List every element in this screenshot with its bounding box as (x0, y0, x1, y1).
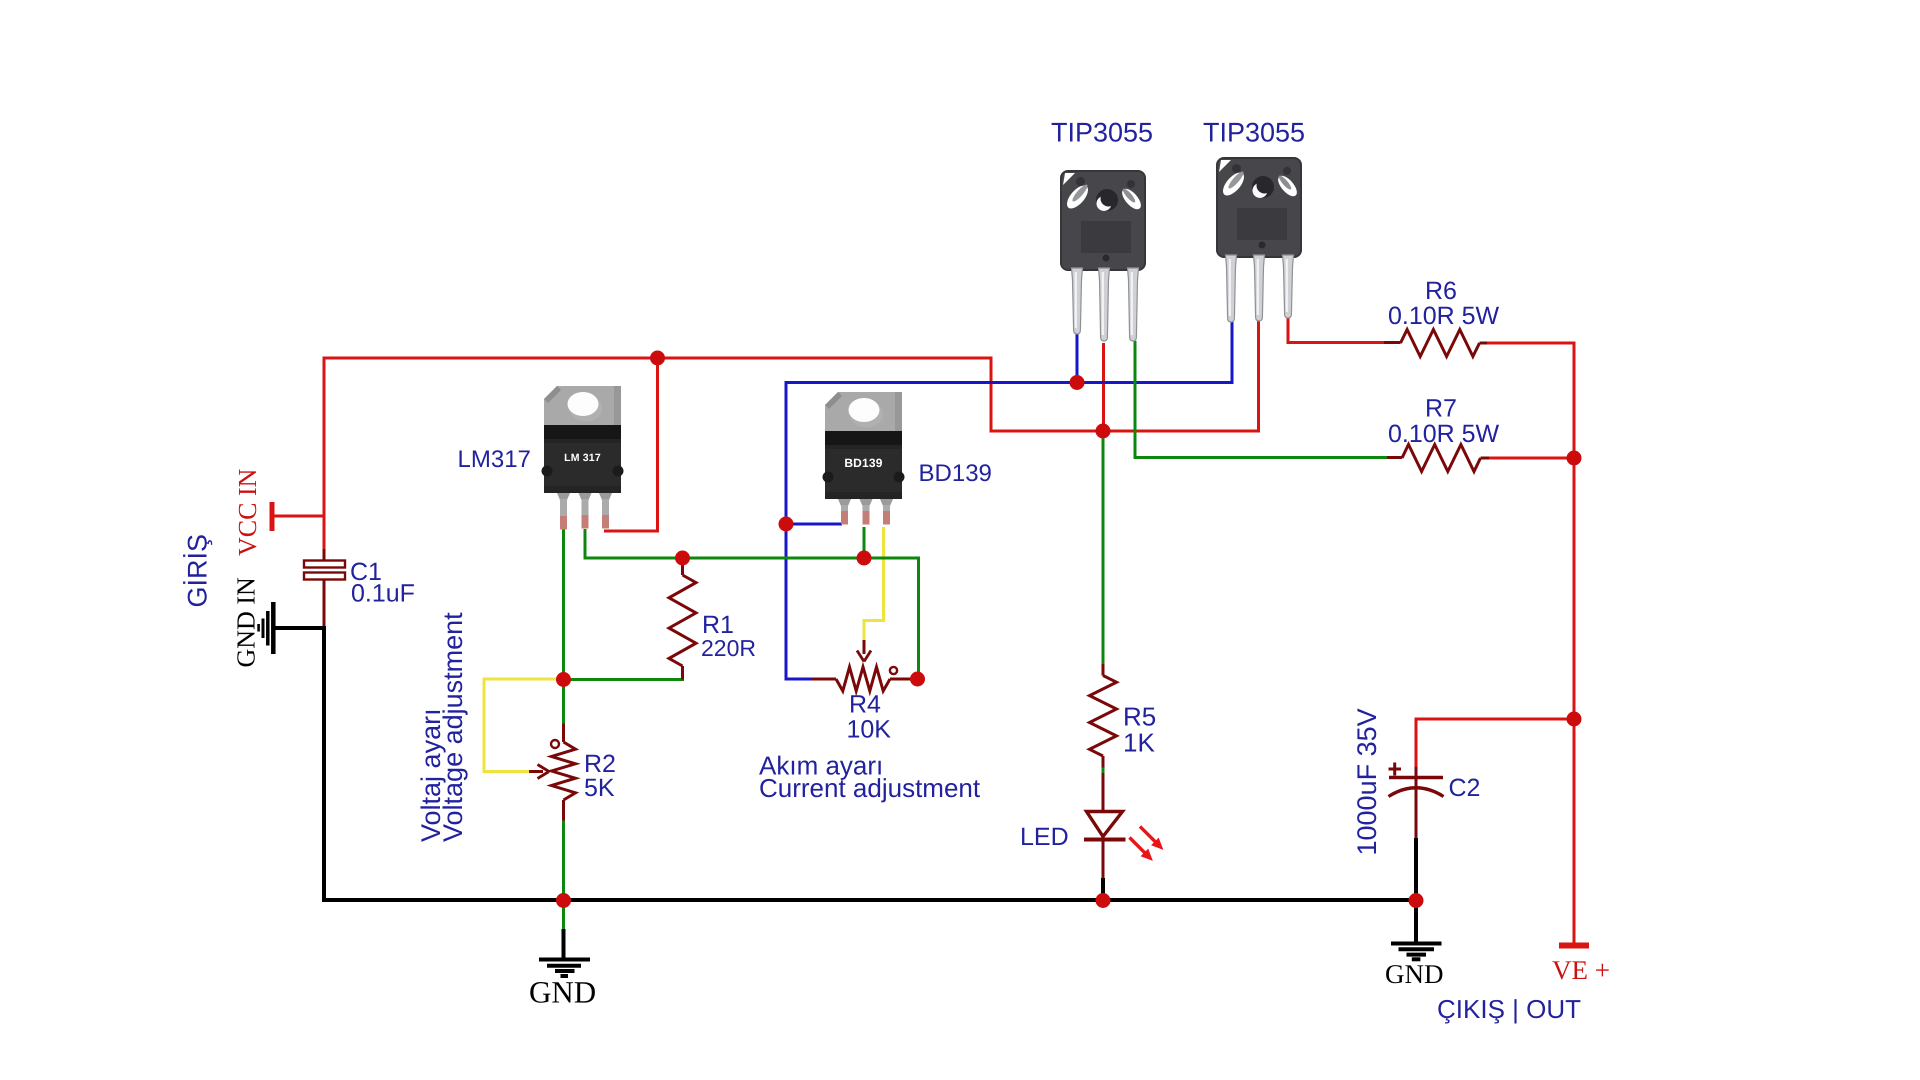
svg-text:Current adjustment: Current adjustment (759, 773, 981, 803)
svg-text:GND: GND (1385, 959, 1444, 989)
svg-text:GND: GND (529, 975, 596, 1010)
svg-text:LED: LED (1020, 823, 1069, 851)
svg-text:BD139: BD139 (919, 460, 992, 487)
svg-text:R6: R6 (1425, 277, 1457, 305)
svg-text:10K: 10K (847, 716, 892, 744)
svg-text:VCC IN: VCC IN (233, 468, 262, 556)
svg-text:Voltage adjustment: Voltage adjustment (438, 612, 468, 842)
svg-text:BD139: BD139 (844, 456, 882, 470)
svg-text:R7: R7 (1425, 395, 1457, 423)
svg-text:1K: 1K (1123, 728, 1155, 758)
svg-text:TIP3055: TIP3055 (1051, 118, 1153, 148)
svg-text:LM 317: LM 317 (564, 452, 601, 464)
svg-text:0.10R 5W: 0.10R 5W (1388, 420, 1500, 448)
svg-text:R4: R4 (849, 691, 881, 719)
svg-text:TIP3055: TIP3055 (1203, 118, 1305, 148)
svg-text:0.1uF: 0.1uF (351, 580, 415, 608)
svg-text:GİRİŞ: GİRİŞ (183, 534, 213, 608)
svg-text:GND IN: GND IN (232, 577, 261, 667)
svg-text:VE +: VE + (1552, 955, 1610, 985)
svg-text:ÇIKIŞ | OUT: ÇIKIŞ | OUT (1437, 994, 1581, 1024)
svg-text:5K: 5K (584, 774, 615, 802)
svg-text:C2: C2 (1449, 774, 1481, 802)
svg-text:1000uF 35V: 1000uF 35V (1352, 708, 1382, 855)
svg-text:0.10R 5W: 0.10R 5W (1388, 302, 1500, 330)
svg-text:220R: 220R (701, 635, 756, 661)
svg-text:LM317: LM317 (458, 446, 531, 473)
